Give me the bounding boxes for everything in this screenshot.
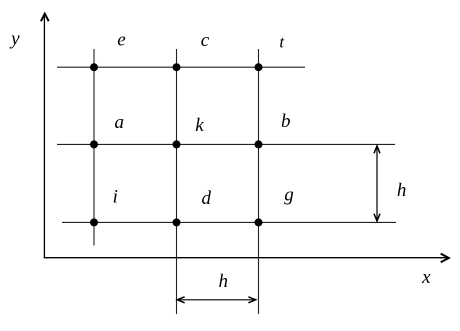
grid row 2 horizontal line: [57, 143, 395, 145]
y-axis line: [43, 14, 45, 258]
y-axis arrowhead: [41, 14, 49, 22]
svg-text:x: x: [421, 267, 431, 288]
node i: [90, 218, 98, 226]
node k: [173, 140, 181, 148]
horizontal h dimension left arrowhead: [177, 297, 184, 303]
svg-text:t: t: [279, 32, 285, 51]
grid column 3 vertical line: [258, 49, 260, 314]
node b: [255, 140, 263, 148]
grid row 1 horizontal line: [57, 66, 305, 68]
svg-text:i: i: [113, 186, 118, 207]
svg-text:d: d: [201, 188, 211, 209]
svg-text:a: a: [115, 112, 125, 133]
svg-text:k: k: [195, 115, 204, 136]
horizontal h dimension right arrowhead: [248, 297, 255, 303]
svg-text:h: h: [218, 271, 228, 292]
node e: [90, 63, 98, 71]
svg-text:b: b: [281, 111, 291, 132]
node c: [173, 63, 181, 71]
horizontal h dimension arrow shaft: [178, 299, 255, 301]
x-axis arrowhead: [441, 254, 449, 263]
svg-text:y: y: [9, 29, 20, 50]
svg-text:e: e: [117, 30, 125, 51]
vertical h dimension arrow shaft: [376, 147, 378, 221]
svg-text:g: g: [284, 184, 294, 205]
node d: [173, 218, 181, 226]
grid column 1 vertical line: [93, 49, 95, 246]
vertical h dimension bottom arrowhead: [374, 214, 380, 221]
vertical h dimension top arrowhead: [374, 146, 380, 153]
node g: [255, 218, 263, 226]
grid row 3 horizontal line: [62, 221, 396, 223]
x-axis line: [44, 257, 449, 259]
node t: [255, 63, 263, 71]
svg-text:h: h: [397, 180, 407, 201]
node a: [90, 140, 98, 148]
svg-text:c: c: [201, 30, 210, 51]
grid column 2 vertical line: [176, 49, 178, 314]
